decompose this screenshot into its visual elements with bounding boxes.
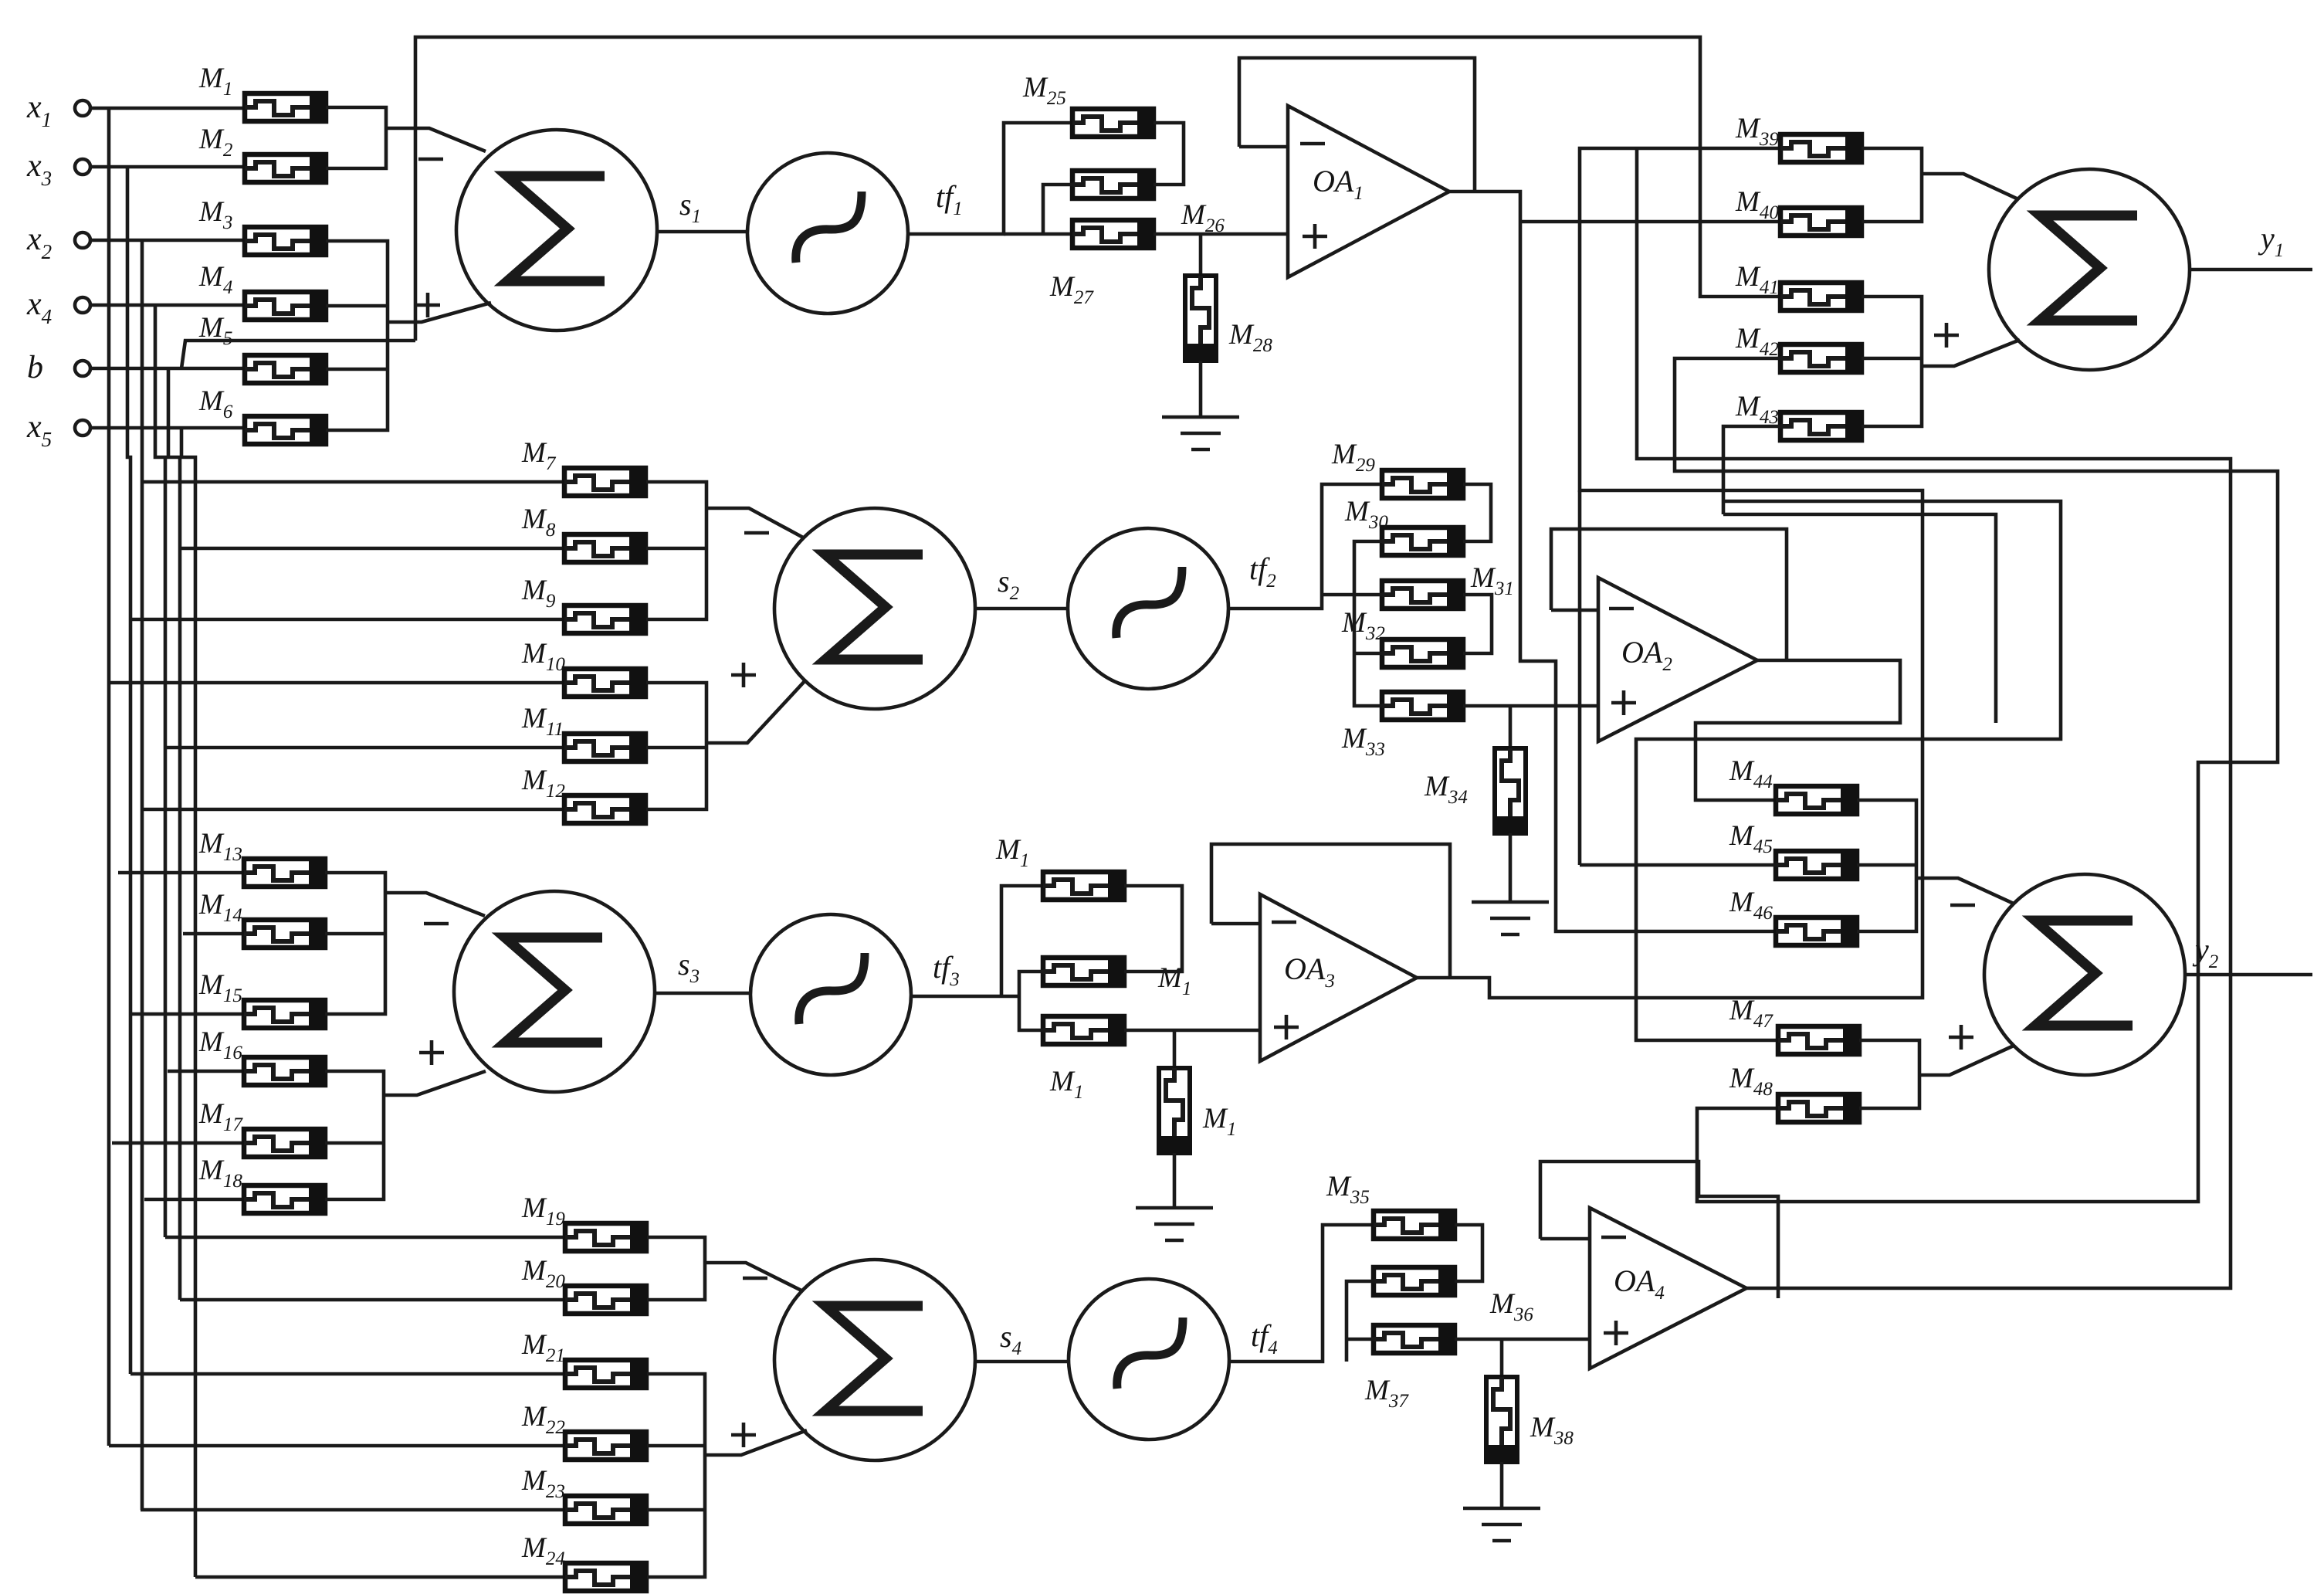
wire input to M18 xyxy=(144,1198,244,1202)
memristor M4 xyxy=(198,261,326,320)
wire bias to M5 input xyxy=(181,341,415,368)
wire y1 output xyxy=(2190,268,2312,272)
wire M11 out xyxy=(646,746,706,750)
minus sign OA1 xyxy=(1300,142,1325,146)
wire x3 to M2 xyxy=(90,165,245,169)
plus sign sum4 xyxy=(731,1423,756,1447)
wire tf4 mid jog xyxy=(1347,1281,1374,1362)
memristor M23 xyxy=(521,1465,646,1524)
ground g2 xyxy=(1472,902,1549,934)
wire M31 M32 out join xyxy=(1463,595,1492,653)
label M26 xyxy=(1181,199,1225,236)
plus sign OA2 xyxy=(1611,690,1636,715)
memristor M38 xyxy=(1486,1377,1574,1462)
wire input to M22 xyxy=(109,1444,565,1448)
wire M14 out xyxy=(325,932,385,936)
wire x2 bus xyxy=(141,240,144,1510)
wire input to M19 xyxy=(165,1236,565,1240)
plus sign sum1 xyxy=(415,293,440,317)
wire input to M14 xyxy=(183,932,244,936)
input terminal b xyxy=(27,350,90,385)
memristor M25b xyxy=(1043,871,1124,900)
svg-text:b: b xyxy=(27,350,43,385)
wire M45 input xyxy=(1580,863,1776,867)
memristor M1 xyxy=(198,63,326,122)
wire M34 top xyxy=(1509,706,1513,748)
wire x1 bus xyxy=(107,108,111,1446)
input terminal x2 xyxy=(26,222,90,263)
wire M7-M9 join xyxy=(646,482,706,619)
wire M25 M26 output join xyxy=(1154,123,1184,185)
wire sum1 plus input xyxy=(388,303,491,322)
summator sum4 xyxy=(774,1260,975,1460)
memristor M37 xyxy=(1374,1324,1455,1354)
wire tf4 xyxy=(1229,1225,1374,1362)
memristor M34 xyxy=(1424,748,1526,833)
memristor M18 xyxy=(198,1155,325,1214)
wire M10-M12 join xyxy=(646,683,706,809)
memristor M29 xyxy=(1331,439,1463,499)
wire M8 out xyxy=(646,547,706,551)
wire M3-M6 join xyxy=(326,241,388,430)
minus sign sum4 xyxy=(743,1277,767,1280)
wire sum3 plus input xyxy=(384,1071,486,1095)
node s4 label xyxy=(1000,1319,1021,1359)
wire tf3 riser xyxy=(1001,886,1043,996)
memristor M31 xyxy=(1382,580,1463,609)
wire b bus xyxy=(168,368,180,1300)
memristor M21 xyxy=(521,1329,646,1389)
wire input to M13 xyxy=(118,871,244,875)
wire OA4 minus input xyxy=(1540,1237,1590,1241)
memristor M28 xyxy=(1184,276,1272,361)
node tf1 label xyxy=(936,179,963,219)
memristor M15 xyxy=(198,969,325,1029)
wire input to M9 xyxy=(130,618,564,622)
memristor M17 xyxy=(198,1098,325,1158)
memristor M14 xyxy=(198,889,325,948)
wire sum1 minus input xyxy=(386,128,486,151)
label M31 xyxy=(1470,562,1514,599)
wire M22 out xyxy=(647,1444,705,1448)
wire M13-M15 join xyxy=(325,873,385,1014)
memristor M30 xyxy=(1344,496,1463,556)
activation tf3 xyxy=(750,914,911,1075)
wire OA3 to M45 branch xyxy=(1578,490,1582,865)
memristor M40 xyxy=(1735,186,1862,236)
wire tf3 xyxy=(911,995,1019,999)
wire tf4 bottom stub xyxy=(1347,1338,1374,1341)
wire sum2 plus input xyxy=(706,680,806,743)
wire sumy2 plus input xyxy=(1919,1046,2014,1075)
wire input to M20 xyxy=(180,1298,565,1302)
wire M34 to ground xyxy=(1509,833,1513,902)
wire M44-M46 out join xyxy=(1857,800,1916,931)
label M25b xyxy=(995,834,1029,871)
activation tf4 xyxy=(1069,1279,1229,1440)
wire OA1 output xyxy=(1449,192,1775,931)
memristor M3 xyxy=(198,196,326,256)
wire x5 to M6 xyxy=(90,426,245,430)
wire input to M10 xyxy=(109,681,564,685)
memristor M8 xyxy=(521,504,645,563)
wire OA2 minus input xyxy=(1551,609,1598,612)
memristor M26 xyxy=(1072,170,1154,199)
op-amp OA4 xyxy=(1590,1208,1746,1368)
memristor M46 xyxy=(1729,887,1857,946)
wire M31 input xyxy=(1322,593,1382,597)
ground g4 xyxy=(1463,1508,1540,1541)
minus sign sum3 xyxy=(424,922,449,926)
wire M45 out xyxy=(1857,863,1916,867)
summator sum1 xyxy=(456,130,657,331)
wire sum3 minus input xyxy=(385,893,485,916)
wire OA2 feedback box xyxy=(1551,529,1787,660)
node tf2 label xyxy=(1249,551,1276,592)
wire M42 M48 loop xyxy=(1675,358,2278,1202)
minus sign OA2 xyxy=(1609,607,1634,611)
ground g3 xyxy=(1136,1208,1213,1240)
wire M28b to ground xyxy=(1173,1153,1177,1208)
wire sumy1 minus input xyxy=(1922,174,2018,199)
wire s1 xyxy=(657,230,747,234)
memristor M10 xyxy=(521,638,645,697)
wire x5 bus xyxy=(181,428,195,1577)
label M36 xyxy=(1489,1288,1533,1325)
wire input to M15 xyxy=(131,1012,244,1016)
wire OA1 to M40 xyxy=(1520,220,1780,224)
wire M38 to ground xyxy=(1500,1462,1504,1508)
wire M47 M48 out join xyxy=(1859,1040,1919,1108)
wire M41-M43 out join xyxy=(1862,297,1922,426)
summator sum3 xyxy=(454,891,655,1092)
wire b to M5 xyxy=(90,367,245,371)
memristor M43 xyxy=(1735,391,1862,441)
wire tf3 mid jog xyxy=(1019,972,1043,1030)
memristor M24 xyxy=(521,1532,646,1592)
wire x4 bus xyxy=(155,305,165,1237)
wire M33 to OA2 plus xyxy=(1463,704,1598,708)
wire M44 box right stub xyxy=(1723,514,1996,723)
node y2 label xyxy=(2192,932,2218,972)
wire tf1 xyxy=(908,123,1072,234)
plus sign OA4 xyxy=(1604,1321,1628,1345)
node s1 label xyxy=(679,187,701,227)
wire tf1 to M27 xyxy=(1004,232,1072,236)
memristor M26b xyxy=(1043,957,1124,986)
memristor M47 xyxy=(1729,995,1859,1055)
summator sum2 xyxy=(774,508,975,709)
wire M17 out xyxy=(325,1141,384,1145)
memristor M22 xyxy=(521,1401,646,1460)
memristor M11 xyxy=(521,703,645,762)
memristor M7 xyxy=(521,437,645,497)
node tf4 label xyxy=(1251,1318,1278,1358)
wire OA3 output xyxy=(1417,148,1923,998)
node s3 label xyxy=(678,947,700,987)
memristor M12 xyxy=(521,765,645,824)
input terminal x3 xyxy=(26,148,90,190)
wire x4 to M4 xyxy=(90,304,245,307)
wire input to M21 xyxy=(130,1372,565,1376)
plus sign sumy1 xyxy=(1934,323,1959,348)
wire M35 M36 out join xyxy=(1455,1225,1482,1281)
wire input to M7 xyxy=(142,480,564,484)
wire top bias feedback xyxy=(415,37,1780,341)
plus sign sum2 xyxy=(731,663,756,687)
wire M5 out xyxy=(326,368,388,371)
memristor M9 xyxy=(521,575,645,634)
wire M26 input jog xyxy=(1043,185,1072,234)
memristor M27b xyxy=(1043,1016,1124,1045)
wire M19 M20 join xyxy=(647,1237,705,1300)
memristor M6 xyxy=(198,385,326,445)
input terminal x4 xyxy=(26,287,90,328)
op-amp OA2 xyxy=(1598,578,1757,741)
wire tf3 pair out join xyxy=(1124,886,1182,972)
wire M38 top xyxy=(1500,1339,1504,1377)
memristor M35 xyxy=(1326,1171,1455,1240)
memristor M25 xyxy=(1022,72,1154,137)
node tf3 label xyxy=(933,950,960,990)
wire OA3 feedback box xyxy=(1211,844,1450,978)
activation tf2 xyxy=(1068,528,1228,689)
wire input to M11 xyxy=(165,746,564,750)
memristor M5 xyxy=(198,312,326,384)
wire tf3 bottom to OA3 plus xyxy=(1124,1029,1260,1033)
wire sum4 minus input xyxy=(705,1263,803,1291)
wire M1 M2 join xyxy=(326,107,386,168)
wire sum2 minus input xyxy=(706,508,805,538)
wire M16-M18 join xyxy=(325,1071,384,1199)
memristor M45 xyxy=(1729,820,1857,880)
wire M27 to OA1 plus xyxy=(1154,232,1288,236)
memristor M16 xyxy=(198,1026,325,1086)
wire s3 xyxy=(655,992,751,995)
memristor M44 xyxy=(1729,755,1857,815)
wire x2 to M3 xyxy=(90,239,245,242)
minus sign sum2 xyxy=(744,531,769,535)
minus sign sum1 xyxy=(418,158,443,161)
wire M4 out xyxy=(326,304,388,308)
wire sumy2 minus input xyxy=(1916,878,2014,904)
memristor M19 xyxy=(521,1192,646,1252)
wire OA1 feedback box xyxy=(1239,58,1475,192)
memristor M42 xyxy=(1735,323,1862,373)
memristor M20 xyxy=(521,1255,646,1314)
wire OA1 minus input xyxy=(1239,145,1288,149)
wire M23 out xyxy=(647,1508,705,1512)
wire input to M23 xyxy=(141,1508,565,1512)
wire OA4 output xyxy=(1637,148,2231,1288)
memristor M2 xyxy=(198,124,326,183)
wire M29 M30 out join xyxy=(1463,484,1491,541)
wire M42 out xyxy=(1862,357,1922,361)
op-amp OA3 xyxy=(1260,894,1417,1061)
memristor M32 xyxy=(1341,607,1463,668)
wire M28 top xyxy=(1199,234,1203,276)
wire M32 input stub xyxy=(1354,652,1382,656)
activation tf1 xyxy=(747,153,908,314)
wire M30 M32 M33 input jog xyxy=(1354,541,1382,706)
node s2 label xyxy=(998,564,1019,604)
memristor M48 xyxy=(1729,1063,1859,1123)
wire M43 M47 loop xyxy=(1636,426,2061,1040)
wire x3 bus xyxy=(127,167,130,1374)
wire M21-M24 join xyxy=(647,1374,705,1577)
label M26b xyxy=(1157,962,1191,999)
wire x1 to M1 xyxy=(90,107,245,110)
wire s4 xyxy=(975,1360,1069,1364)
input terminal x1 xyxy=(26,90,90,131)
input terminal x5 xyxy=(26,409,90,451)
memristor M41 xyxy=(1735,261,1862,311)
minus sign OA3 xyxy=(1272,921,1296,924)
op-amp OA1 xyxy=(1288,106,1449,277)
plus sign OA1 xyxy=(1303,224,1327,249)
wire input to M17 xyxy=(112,1141,244,1145)
label M27b xyxy=(1049,1066,1083,1103)
wire y2 output xyxy=(2185,973,2312,977)
wire OA3 minus input xyxy=(1211,922,1260,926)
wire sumy1 plus input xyxy=(1922,340,2020,366)
label M27 xyxy=(1049,271,1094,308)
wire s2 xyxy=(975,607,1069,611)
plus sign sumy2 xyxy=(1949,1025,1973,1050)
summator sumy1 xyxy=(1989,169,2190,370)
wire M39 M40 out join xyxy=(1862,148,1922,222)
node y1 label xyxy=(2258,221,2284,261)
wire OA4 feedback box xyxy=(1540,1162,1778,1298)
plus sign sum3 xyxy=(419,1040,444,1065)
wire input to M16 xyxy=(168,1070,244,1073)
plus sign OA3 xyxy=(1274,1015,1299,1039)
minus sign OA4 xyxy=(1601,1236,1626,1240)
memristor M33 xyxy=(1341,691,1463,760)
memristor M13 xyxy=(198,828,325,887)
memristor M39 xyxy=(1735,113,1862,163)
wire input to M12 xyxy=(142,808,564,812)
wire input to M8 xyxy=(180,547,564,551)
wire M28b top xyxy=(1173,1030,1177,1068)
ground g1 xyxy=(1162,417,1239,449)
summator sumy2 xyxy=(1984,874,2185,1075)
wire tf2 xyxy=(1228,484,1382,609)
wire input to M24 xyxy=(195,1575,565,1579)
memristor M27 xyxy=(1072,219,1154,249)
wire OA2 output xyxy=(1696,660,1900,800)
wire M37 to OA4 plus xyxy=(1455,1338,1590,1341)
wire M28 to ground xyxy=(1199,361,1203,417)
minus sign sumy2 xyxy=(1950,904,1975,907)
memristor M28b xyxy=(1158,1068,1236,1153)
wire sum4 plus input xyxy=(705,1430,807,1455)
memristor M36 xyxy=(1374,1267,1455,1296)
label M37 xyxy=(1364,1375,1409,1412)
